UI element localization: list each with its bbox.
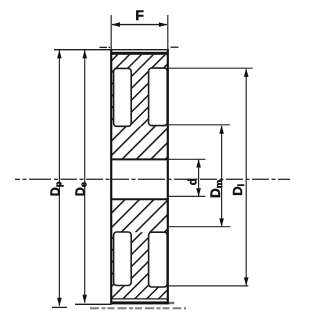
svg-text:F: F [135, 7, 144, 23]
